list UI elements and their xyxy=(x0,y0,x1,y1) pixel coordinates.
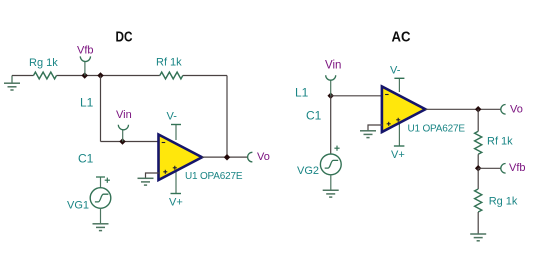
node Vin (DC) xyxy=(116,109,132,145)
ground (left of Rg, DC) xyxy=(4,76,20,91)
wire feedback branch down xyxy=(100,76,102,142)
node Vo (DC) xyxy=(248,151,270,163)
svg-text:C1: C1 xyxy=(78,152,94,166)
node Vin (AC) xyxy=(325,60,341,100)
svg-text:Vin: Vin xyxy=(325,60,341,72)
node output junction (AC) xyxy=(475,106,482,113)
pin V- of U1 (AC) xyxy=(390,65,404,93)
svg-text:Vin: Vin xyxy=(116,109,132,121)
node Vfb (AC) xyxy=(501,162,526,174)
svg-text:U1 OPA627E: U1 OPA627E xyxy=(408,124,466,135)
svg-text:AC: AC xyxy=(392,30,411,46)
pin V+ of U1 (AC) xyxy=(391,124,405,161)
voltage source VG2 (AC) xyxy=(297,146,341,177)
ground (non-inverting input, AC) xyxy=(360,125,382,138)
ground (below VG1) xyxy=(93,208,109,230)
title AC xyxy=(392,30,411,46)
ground (below Rg, AC) xyxy=(470,234,486,241)
wire Rg to ground (AC) xyxy=(477,212,479,234)
wire ground to Rg xyxy=(12,75,34,77)
wire Vin to inverting input (AC) xyxy=(331,95,383,97)
voltage source VG1 (DC) xyxy=(67,177,111,212)
svg-text:Rg 1k: Rg 1k xyxy=(489,196,518,208)
wire Vfb junction down to Rg (AC) xyxy=(477,168,479,189)
svg-text:DC: DC xyxy=(116,30,133,46)
resistor Rf 1k (AC) xyxy=(475,131,514,154)
node Vo (AC) xyxy=(501,104,523,116)
label L1 (AC) xyxy=(295,86,309,100)
svg-text:V-: V- xyxy=(167,111,178,123)
svg-text:Vfb: Vfb xyxy=(509,162,526,174)
node Vfb junction (AC) xyxy=(475,165,482,172)
svg-text:V+: V+ xyxy=(391,149,405,161)
wire op-amp output (AC) xyxy=(425,108,500,110)
svg-text:C1: C1 xyxy=(306,109,322,123)
wire Rf to Vfb junction (AC) xyxy=(477,154,479,168)
svg-text:VG1: VG1 xyxy=(67,200,89,212)
title DC xyxy=(116,30,133,46)
pin V- of U1 (DC) xyxy=(167,111,182,141)
label L1 (DC) xyxy=(80,96,94,110)
pin V+ of U1 (DC) xyxy=(169,172,183,209)
node output junction (DC) xyxy=(224,154,231,161)
label C1 (AC) xyxy=(306,109,322,123)
wire Rg to Rf rail xyxy=(57,75,160,77)
resistor Rg 1k (DC) xyxy=(29,57,58,79)
svg-text:L1: L1 xyxy=(295,86,309,100)
svg-text:Vfb: Vfb xyxy=(77,45,94,57)
node Vfb (DC) xyxy=(77,45,94,79)
ground (non-inverting input, DC) xyxy=(138,173,159,185)
svg-text:L1: L1 xyxy=(80,96,94,110)
wire junction to Vfb pin (AC) xyxy=(478,167,501,169)
resistor Rg 1k (AC) xyxy=(475,189,518,212)
svg-text:U1 OPA627E: U1 OPA627E xyxy=(185,171,243,182)
svg-text:V-: V- xyxy=(390,65,401,77)
resistor Rf 1k (DC) xyxy=(156,57,183,79)
ground (below VG2) xyxy=(323,175,339,197)
wire to inverting input (DC) xyxy=(101,141,159,143)
wire op-amp output (DC) xyxy=(202,156,248,158)
svg-text:Vo: Vo xyxy=(510,104,523,116)
svg-text:Rf 1k: Rf 1k xyxy=(487,136,513,148)
op-amp U1 OPA627E (AC) xyxy=(382,87,465,135)
wire Rf to output corner xyxy=(183,76,227,158)
label C1 (DC) xyxy=(78,152,94,166)
node junction to feedback branch (DC) xyxy=(97,72,104,79)
wire Vin down to VG2 xyxy=(330,96,332,154)
svg-text:Vo: Vo xyxy=(257,151,270,163)
svg-text:V+: V+ xyxy=(169,197,183,209)
svg-text:VG2: VG2 xyxy=(297,165,319,177)
svg-text:Rf 1k: Rf 1k xyxy=(156,57,182,69)
op-amp U1 OPA627E (DC) xyxy=(159,135,243,183)
wire output down to Rf (AC) xyxy=(477,109,479,131)
svg-text:Rg 1k: Rg 1k xyxy=(29,57,58,69)
